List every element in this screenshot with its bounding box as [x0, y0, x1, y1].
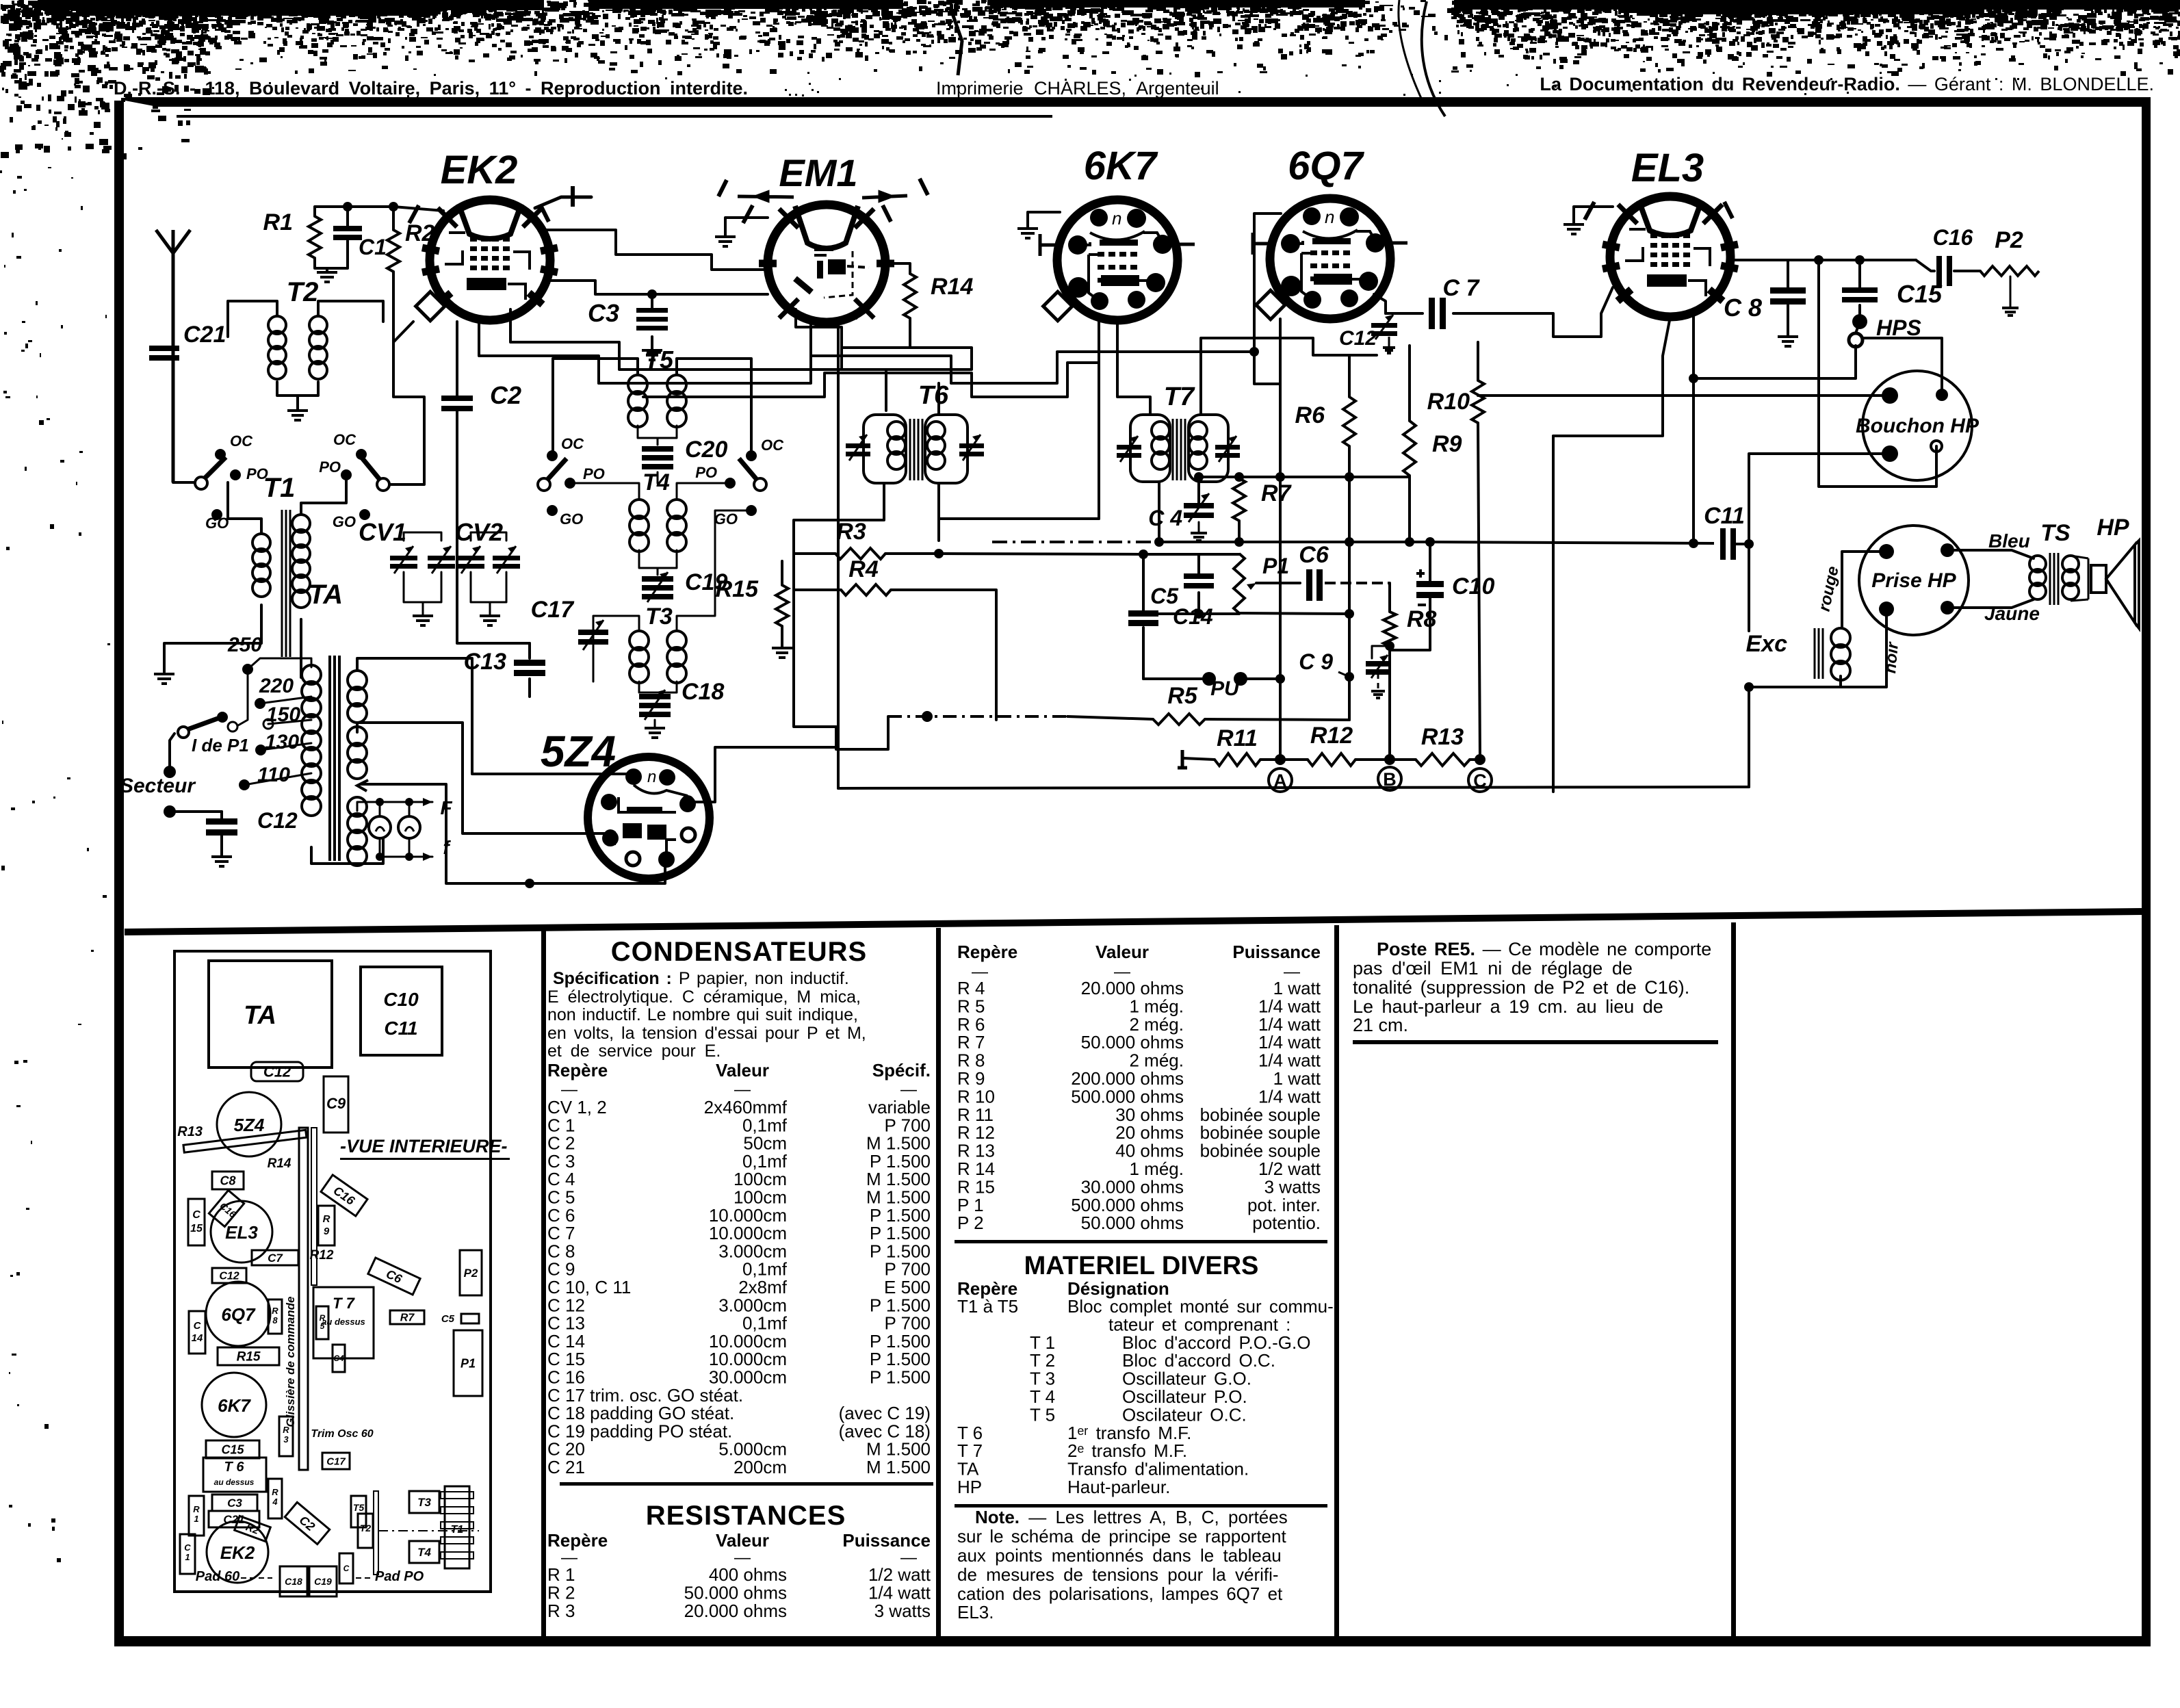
- svg-text:Haut-parleur.: Haut-parleur.: [1067, 1477, 1170, 1497]
- svg-text:Trim Osc 60: Trim Osc 60: [311, 1428, 373, 1440]
- TA heater pilot lamps: [369, 816, 391, 838]
- svg-text:14: 14: [192, 1332, 203, 1344]
- chassis C15 box: [188, 1199, 205, 1245]
- wire EL3 plate to HT node: [1730, 259, 1788, 261]
- wire EK2 cathode down to C2: [456, 322, 458, 396]
- svg-text:P2: P2: [464, 1267, 478, 1280]
- chassis T6 box: [203, 1458, 266, 1492]
- svg-text:Repère: Repère: [547, 1060, 608, 1081]
- svg-text:Bouchon HP: Bouchon HP: [1856, 415, 1980, 437]
- svg-text:PO: PO: [583, 465, 605, 482]
- chassis R3 box: [279, 1416, 293, 1456]
- chassis R8 box: [268, 1299, 282, 1334]
- capacitor C1: [333, 226, 362, 231]
- svg-text:R3: R3: [836, 519, 866, 545]
- wire C5/P1 loop: [1142, 554, 1145, 610]
- resistor R12: [1308, 753, 1355, 766]
- capacitor C16: [1936, 256, 1942, 286]
- svg-text:C2: C2: [490, 381, 521, 409]
- svg-text:C10: C10: [383, 989, 419, 1010]
- svg-text:8: 8: [272, 1315, 278, 1325]
- wire switch S2 to EK2 grid line: [389, 438, 424, 484]
- svg-text:Le haut-parleur a 19 cm.: Le haut-parleur a 19 cm. au lieu de: [1353, 996, 1663, 1017]
- svg-text:R 1: R 1: [547, 1564, 575, 1585]
- chassis T4 box: [409, 1541, 439, 1563]
- wire 6Q7 right pin down: [1374, 294, 1386, 313]
- svg-text:CONDENSATEURS: CONDENSATEURS: [611, 937, 868, 967]
- svg-text:6K7: 6K7: [1084, 144, 1158, 188]
- svg-text:GO: GO: [714, 510, 738, 528]
- chassis R7 box: [390, 1310, 424, 1324]
- wire EK2 plate top bus: [541, 230, 766, 270]
- svg-text:TA: TA: [309, 580, 343, 610]
- capacitor C19: [639, 550, 658, 568]
- svg-text:EM1: EM1: [779, 151, 857, 194]
- svg-text:Puissance: Puissance: [842, 1530, 931, 1551]
- wire T7 leads: [1117, 320, 1150, 415]
- svg-text:n: n: [1112, 208, 1121, 229]
- svg-text:n: n: [647, 768, 656, 786]
- svg-text:R14: R14: [268, 1156, 291, 1171]
- svg-text:-VUE INTERIEURE-: -VUE INTERIEURE-: [340, 1136, 508, 1156]
- svg-text:noir: noir: [1881, 640, 1902, 674]
- svg-text:Pad 60: Pad 60: [196, 1569, 239, 1584]
- svg-text:T2: T2: [360, 1523, 372, 1534]
- T7 secondary trimmer: [1215, 445, 1240, 450]
- svg-text:C9: C9: [326, 1095, 346, 1112]
- svg-text:C17: C17: [531, 597, 575, 623]
- ground C3: [651, 337, 653, 349]
- capacitor C6: [1306, 569, 1312, 601]
- svg-text:et de service pour E.: et de service pour E.: [547, 1041, 721, 1061]
- svg-text:Exc: Exc: [1746, 631, 1788, 657]
- resistor R14: [904, 274, 916, 318]
- svg-text:aux points mentionnés dans le: aux points mentionnés dans le tableau: [957, 1545, 1282, 1566]
- coil T4 windings: [630, 500, 649, 519]
- ground 6K7 heater: [1028, 212, 1060, 227]
- svg-text:C12: C12: [1339, 327, 1377, 350]
- wire HT to C16: [1916, 260, 1934, 271]
- connector Bouchon HP: [1863, 371, 1972, 480]
- wire C11 row: [1733, 543, 1749, 545]
- svg-text:C 7: C 7: [1443, 275, 1481, 301]
- mains switch I de P1: [178, 727, 189, 738]
- svg-text:PO: PO: [319, 458, 341, 476]
- ground R15: [772, 648, 792, 658]
- svg-text:EL3: EL3: [225, 1222, 258, 1243]
- wire HT bus right: [1788, 259, 1916, 261]
- svg-text:GO: GO: [333, 513, 356, 530]
- svg-text:T7: T7: [1164, 383, 1195, 411]
- chassis R5 box: [316, 1306, 328, 1339]
- svg-text:P 2: P 2: [957, 1213, 984, 1233]
- svg-text:6Q7: 6Q7: [1288, 144, 1364, 188]
- transformer T6 primary: [864, 415, 906, 483]
- svg-text:T1: T1: [263, 473, 296, 503]
- capacitor C3: [636, 308, 668, 313]
- svg-text:Prise HP: Prise HP: [1871, 569, 1956, 592]
- svg-text:en volts, la tension d'essai p: en volts, la tension d'essai pour P et M…: [547, 1024, 866, 1043]
- svg-text:R13: R13: [1421, 724, 1464, 750]
- chassis dash-dot line: [378, 1530, 479, 1531]
- capacitor C5: [1184, 573, 1214, 579]
- chassis R15 box: [218, 1347, 279, 1365]
- chassis EK2 circle: [207, 1521, 268, 1583]
- svg-text:C19: C19: [314, 1576, 332, 1587]
- transformer T7 primary: [1130, 415, 1170, 482]
- chassis T1 coil stack: [445, 1486, 469, 1568]
- svg-text:Spécif.: Spécif.: [872, 1060, 931, 1081]
- transformer T6 secondary: [925, 415, 968, 483]
- svg-text:C11: C11: [384, 1018, 417, 1039]
- transformer TA core: [330, 656, 339, 861]
- transformer T1 core: [282, 510, 290, 657]
- wire C14 bottom to PU row: [1142, 627, 1145, 679]
- T6 secondary trimmer: [959, 443, 984, 448]
- capacitor C14: [1128, 610, 1158, 617]
- chassis C9 box: [324, 1076, 348, 1133]
- wire jaune to TS: [1947, 599, 2034, 608]
- svg-text:4: 4: [272, 1497, 278, 1507]
- svg-text:C12: C12: [219, 1271, 239, 1282]
- chassis R9 box: [318, 1206, 335, 1245]
- svg-text:La Documentation du Revendeur-: La Documentation du Revendeur-Radio. — G…: [1540, 74, 2154, 94]
- svg-text:Note. — Les lettres A, B, C, p: Note. — Les lettres A, B, C, portées: [975, 1507, 1288, 1527]
- chassis 5Z4 circle: [217, 1092, 281, 1156]
- chassis P2 box: [460, 1250, 482, 1295]
- rule under resistances2: [955, 1240, 1327, 1243]
- capacitor C4: [1184, 503, 1214, 508]
- svg-text:OC: OC: [761, 437, 784, 454]
- wire TA HT to 5Z4 plate row: [357, 658, 634, 774]
- svg-text:I de P1: I de P1: [192, 735, 249, 755]
- svg-text:T 5: T 5: [1030, 1404, 1055, 1425]
- wire TA mid to 5Z4: [357, 723, 610, 833]
- rail node A: [1279, 319, 1282, 760]
- svg-text:C: C: [192, 1209, 200, 1221]
- column rule 1: [541, 931, 546, 1636]
- chassis 6Q7 circle: [206, 1282, 270, 1346]
- column rule 2: [936, 928, 941, 1636]
- long dash-dot row: [992, 541, 1159, 543]
- wire bouchon lower-left to C11: [1749, 454, 1890, 544]
- frame bottom bar: [114, 1636, 2151, 1646]
- ground C18: [645, 728, 665, 738]
- svg-text:C5: C5: [441, 1313, 455, 1325]
- svg-text:R: R: [193, 1504, 200, 1514]
- transformer T7 core: [1173, 419, 1185, 480]
- chassis R2 diag box: [235, 1516, 271, 1541]
- capacitor C11: [1720, 528, 1726, 560]
- wire EK2 anode to C3 top and right: [547, 281, 652, 308]
- svg-text:C11: C11: [1704, 503, 1745, 529]
- svg-text:R1: R1: [263, 209, 293, 235]
- wire C12 to TA primary bottom: [311, 831, 383, 864]
- transformer TA primary coil: [302, 665, 321, 684]
- svg-text:T5: T5: [645, 346, 674, 374]
- svg-text:C8: C8: [220, 1174, 235, 1187]
- svg-text:R15: R15: [716, 576, 759, 602]
- wire T2 top leads: [228, 301, 277, 337]
- svg-text:C1: C1: [359, 235, 387, 259]
- node B: [1378, 767, 1401, 790]
- wire bleu to TS: [1947, 550, 2034, 558]
- potentiometer P1: [1234, 554, 1245, 613]
- resistor R15: [776, 585, 788, 626]
- svg-text:C3: C3: [588, 299, 619, 327]
- svg-text:—: —: [734, 1081, 751, 1099]
- capacitor C8: [1770, 287, 1806, 294]
- svg-text:T3: T3: [417, 1496, 431, 1509]
- svg-text:T 7: T 7: [333, 1295, 356, 1312]
- wire T1 leads: [228, 482, 261, 534]
- wire secteur lower lead: [164, 805, 176, 818]
- coil T5 windings: [628, 375, 647, 394]
- svg-text:OC: OC: [561, 435, 584, 452]
- resistor R2: [387, 230, 400, 272]
- chassis C4 box: [333, 1345, 345, 1372]
- T6 primary trimmer: [846, 443, 870, 448]
- EK2 grid diamond wire: [393, 322, 413, 383]
- capacitor C15: [1842, 287, 1878, 293]
- rail below R6: [1348, 355, 1351, 397]
- svg-text:Poste RE5. — Ce modèle ne comp: Poste RE5. — Ce modèle ne comporte: [1377, 939, 1711, 959]
- svg-text:cation des polarisations, lamp: cation des polarisations, lampes 6Q7 et: [957, 1583, 1283, 1604]
- chassis T2 cyl: [358, 1514, 373, 1548]
- transformer T1 secondary coil: [292, 515, 310, 532]
- node C: [1468, 768, 1492, 792]
- svg-text:220: 220: [259, 675, 294, 697]
- svg-text:non inductif. Le nombre qui su: non inductif. Le nombre qui suit indique…: [547, 1005, 858, 1024]
- svg-text:R10: R10: [1427, 389, 1470, 415]
- ground C9: [1371, 691, 1385, 698]
- svg-text:Valeur: Valeur: [1095, 942, 1149, 962]
- svg-text:110: 110: [257, 764, 290, 786]
- svg-text:C: C: [194, 1320, 202, 1332]
- resistor R5: [1153, 714, 1205, 725]
- ground P2: [2002, 308, 2019, 315]
- chassis C21 box: [209, 1511, 259, 1527]
- svg-text:R12: R12: [310, 1248, 334, 1263]
- wire R1/C1 bottom to ground: [315, 258, 327, 268]
- chassis C8 box: [212, 1172, 244, 1189]
- chassis C7 box: [252, 1250, 298, 1265]
- svg-text:sur le schéma de principe se r: sur le schéma de principe se rapportent: [957, 1526, 1286, 1547]
- svg-text:C13: C13: [464, 649, 506, 675]
- wire R2 bottom down: [393, 272, 424, 438]
- svg-text:P2: P2: [1995, 227, 2023, 253]
- rule under poste RE5: [1353, 1040, 1718, 1044]
- transformer T2 secondary coil: [309, 316, 327, 334]
- capacitor C20: [638, 426, 658, 438]
- tube EM1 (magic eye): [718, 179, 928, 322]
- svg-text:5Z4: 5Z4: [234, 1115, 265, 1135]
- chassis C10 C11 box: [361, 967, 442, 1055]
- chassis C16 diag box: [321, 1175, 367, 1216]
- resistor R1: [309, 216, 321, 258]
- antenna: [156, 230, 190, 482]
- svg-text:D.-R.-S. - 118, Boulevard Volt: D.-R.-S. - 118, Boulevard Voltaire, Pari…: [114, 78, 748, 99]
- frame left bar: [114, 101, 124, 1646]
- svg-text:R9: R9: [1432, 431, 1462, 457]
- resistor R13: [1416, 753, 1470, 766]
- svg-text:Pad PO: Pad PO: [375, 1569, 424, 1584]
- svg-text:400 ohms: 400 ohms: [709, 1564, 787, 1585]
- transformer TA secondary HT coil: [348, 671, 367, 690]
- tube 6K7 (IF amp): [1040, 200, 1195, 321]
- svg-text:RESISTANCES: RESISTANCES: [646, 1501, 846, 1531]
- svg-text:150: 150: [266, 703, 300, 726]
- svg-text:R4: R4: [848, 556, 879, 582]
- resistor R7: [1233, 478, 1245, 521]
- svg-text:n: n: [1325, 207, 1334, 227]
- svg-text:C 8: C 8: [1724, 294, 1762, 322]
- ground left of T1: [164, 643, 212, 672]
- wire 6Q7 plate to C7 to EL3: [1386, 312, 1423, 315]
- svg-text:C16: C16: [1933, 225, 1973, 250]
- chassis R13 pointer: [183, 1130, 307, 1152]
- svg-text:C14: C14: [1173, 604, 1213, 629]
- svg-text:R6: R6: [1295, 402, 1326, 428]
- capacitor C2: [441, 396, 473, 401]
- svg-text:C21: C21: [183, 322, 226, 348]
- svg-text:C3: C3: [227, 1497, 242, 1510]
- svg-text:T1: T1: [451, 1524, 464, 1536]
- svg-text:C12: C12: [263, 1063, 291, 1081]
- svg-text:R14: R14: [931, 274, 973, 300]
- svg-text:R: R: [283, 1425, 289, 1435]
- ground CV1: [413, 616, 433, 625]
- svg-text:1: 1: [194, 1514, 198, 1524]
- band switch S1 (OC/PO/GO): [195, 477, 207, 489]
- svg-text:MATERIEL DIVERS: MATERIEL DIVERS: [1024, 1252, 1259, 1280]
- resistor R3: [835, 548, 885, 559]
- wire R14 top to EM1: [885, 263, 910, 274]
- wire P1 bottom row: [1239, 613, 1349, 614]
- svg-text:50.000 ohms: 50.000 ohms: [684, 1583, 787, 1603]
- svg-text:C4: C4: [333, 1354, 344, 1363]
- resistor R9: [1403, 421, 1416, 476]
- svg-text:15: 15: [190, 1223, 203, 1234]
- svg-text:TA: TA: [244, 1001, 276, 1030]
- svg-text:R15: R15: [237, 1350, 261, 1364]
- wire R11-R13 chain: [1178, 750, 1187, 768]
- transformer T1 primary coil: [252, 534, 270, 552]
- wire P1 tap to C6: [1256, 582, 1300, 584]
- heater F/f leads: [357, 802, 432, 811]
- svg-text:5Z4: 5Z4: [541, 727, 616, 776]
- svg-text:C: C: [343, 1564, 350, 1573]
- chassis C19a box: [206, 1440, 259, 1458]
- svg-text:T4: T4: [643, 469, 670, 495]
- svg-text:C20: C20: [685, 437, 727, 463]
- ground EM1 heater: [725, 218, 768, 235]
- wire EL3 cathode down: [1692, 309, 1695, 543]
- svg-text:GO: GO: [560, 510, 583, 528]
- wire EK2 bottom steps: [479, 316, 599, 383]
- svg-text:HP: HP: [2097, 515, 2129, 541]
- wire EM1 bottom leads: [809, 320, 812, 356]
- svg-text:—: —: [900, 1081, 917, 1099]
- svg-text:C12: C12: [257, 808, 298, 833]
- svg-text:au dessus: au dessus: [214, 1477, 255, 1487]
- wire T5 tops: [553, 359, 638, 454]
- TA mains taps: [242, 664, 253, 675]
- svg-text:Puissance: Puissance: [1232, 942, 1321, 962]
- svg-text:Jaune: Jaune: [1984, 603, 2040, 624]
- svg-text:C15: C15: [1897, 280, 1943, 308]
- capacitor C17 (trimmer): [578, 630, 608, 635]
- bottom section top rule: [125, 911, 2142, 932]
- chassis C6 diag box: [368, 1258, 420, 1295]
- wire C13 connections: [457, 594, 530, 643]
- ground CV2: [480, 616, 500, 625]
- capacitor C9: [1366, 661, 1390, 667]
- rail 2270: [1552, 436, 1555, 792]
- wire R5 row left step: [794, 541, 888, 749]
- ground EL3 heater: [1574, 207, 1613, 223]
- svg-text:Secteur: Secteur: [120, 775, 196, 797]
- svg-text:R13: R13: [177, 1124, 203, 1139]
- resistor R4: [841, 584, 891, 595]
- transformer T6 core: [910, 419, 922, 480]
- svg-text:1/2 watt: 1/2 watt: [868, 1564, 931, 1585]
- capacitor C13: [528, 643, 531, 658]
- svg-text:pas d'œil EM1 ni de: pas d'œil EM1 ni de réglage de: [1353, 958, 1633, 979]
- wire 6K7 cathode rail: [1098, 322, 1100, 519]
- svg-text:R5: R5: [1167, 683, 1198, 709]
- svg-text:R 3: R 3: [547, 1601, 575, 1621]
- resistor R10: [1472, 380, 1484, 423]
- svg-text:C6: C6: [1299, 542, 1329, 568]
- chassis P1 box: [454, 1330, 482, 1396]
- svg-text:1: 1: [185, 1552, 190, 1562]
- resistor R6: [1343, 397, 1355, 446]
- capacitor C12: [206, 818, 237, 825]
- svg-text:C 4: C 4: [1148, 506, 1182, 530]
- svg-text:C18: C18: [682, 679, 724, 705]
- chassis C3 box: [212, 1494, 257, 1511]
- EK2 heater terminal: [535, 197, 573, 208]
- chassis C12b box: [212, 1268, 246, 1283]
- rule under condensateurs: [560, 1482, 933, 1486]
- svg-text:C10: C10: [1452, 573, 1494, 599]
- svg-text:Repère: Repère: [957, 942, 1017, 962]
- svg-text:HPS: HPS: [1876, 315, 1921, 340]
- chassis C2 diag box: [285, 1502, 329, 1544]
- tube 5Z4 (rectifier): [588, 757, 710, 879]
- svg-text:EK2: EK2: [220, 1542, 255, 1563]
- svg-text:OC: OC: [230, 432, 253, 450]
- wire bundle EM1 to 6K7 (staircase): [599, 352, 1099, 383]
- rail node C: [1478, 423, 1480, 760]
- svg-text:tonalité (suppression de P2 et: tonalité (suppression de P2 et de C16).: [1353, 977, 1689, 998]
- capacitor C7: [1429, 298, 1435, 329]
- svg-text:R12: R12: [1310, 723, 1353, 749]
- wire EM1 bottom U: [796, 309, 842, 370]
- potentiometer P2: [1980, 266, 2039, 276]
- svg-text:5: 5: [320, 1321, 325, 1331]
- chassis C16a diag box: [209, 1191, 244, 1227]
- ground R1: [317, 272, 337, 282]
- wire bouchon left-top feed: [1478, 394, 1890, 397]
- capacitor C21: [149, 346, 179, 351]
- svg-text:T 6: T 6: [224, 1460, 245, 1475]
- svg-text:TS: TS: [2040, 520, 2071, 546]
- svg-text:C: C: [184, 1542, 191, 1553]
- svg-text:9: 9: [324, 1226, 330, 1237]
- capacitor C10 (electrolytic): [1416, 581, 1444, 587]
